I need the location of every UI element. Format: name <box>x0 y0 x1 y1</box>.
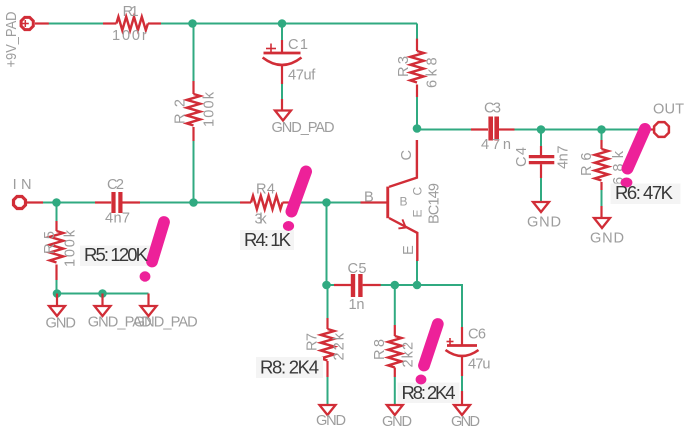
resistor R6 <box>579 140 627 218</box>
svg-text:3k: 3k <box>255 212 268 228</box>
svg-text:GND: GND <box>382 414 412 429</box>
svg-text:GND_PAD: GND_PAD <box>134 315 198 331</box>
wire R1 to R3 corner top rail <box>160 23 417 25</box>
annotation highlight R8 <box>398 324 460 403</box>
svg-text:100r: 100r <box>112 28 147 44</box>
pad IN <box>13 177 43 209</box>
node IN-R5 junction <box>52 198 61 207</box>
svg-text:E: E <box>401 245 417 255</box>
svg-text:E: E <box>411 209 425 217</box>
ground GND under R5 <box>46 294 76 332</box>
capacitor C4 <box>514 146 572 179</box>
svg-text:C5: C5 <box>348 261 367 277</box>
node collector junction <box>413 124 422 133</box>
node R2-C2 junction <box>189 198 198 207</box>
resistor R8 <box>372 325 417 377</box>
wire R3 bottom to collector node <box>416 97 418 130</box>
resistor R7 <box>305 318 348 377</box>
node R6 junction <box>597 125 606 134</box>
svg-text:100k: 100k <box>63 229 79 267</box>
ground GND_PAD under C1 <box>272 111 335 137</box>
svg-text:R5: 120K: R5: 120K <box>84 244 149 265</box>
capacitor C5 <box>334 261 381 313</box>
ground GND under C4 <box>527 202 561 231</box>
wire R3 top vertical <box>416 24 418 40</box>
wire R5 bottom <box>56 280 58 294</box>
wire R4 to base node <box>291 202 361 204</box>
wire C6 bottom green segment <box>461 376 463 391</box>
capacitor C2 <box>95 177 140 227</box>
wire C4 top <box>540 130 542 147</box>
capacitor C6 <box>446 327 491 406</box>
svg-text:R6: 47K: R6: 47K <box>615 182 674 203</box>
svg-text:GND: GND <box>590 231 624 247</box>
wire C2 to R4 <box>129 202 240 204</box>
annotation highlight R5 <box>80 222 164 282</box>
svg-text:C4: C4 <box>514 147 530 167</box>
wire C1 top <box>281 24 283 41</box>
annotation label R8 left <box>256 357 323 379</box>
pad OUT <box>647 102 684 137</box>
svg-text:GND: GND <box>451 414 480 429</box>
wire R2 top vertical <box>193 24 195 82</box>
svg-text:R4: 1K: R4: 1K <box>244 229 292 250</box>
wire R7 top <box>327 285 329 318</box>
wire C3 to OUT rail <box>515 129 649 131</box>
svg-text:OUT: OUT <box>653 102 684 118</box>
svg-text:R4: R4 <box>256 182 275 198</box>
svg-text:BC149: BC149 <box>426 183 442 224</box>
wire emitter rail to C6 <box>461 285 463 327</box>
node gnd row junction 2 <box>98 289 107 298</box>
resistor R1 <box>103 4 161 44</box>
capacitor C1 <box>263 37 317 110</box>
svg-text:GND: GND <box>527 215 561 231</box>
svg-text:+9V_PAD: +9V_PAD <box>4 12 20 68</box>
svg-text:C: C <box>411 187 425 196</box>
capacitor C3 <box>471 101 515 154</box>
wire R7 bottom <box>327 377 329 405</box>
svg-text:R7: R7 <box>305 333 321 351</box>
node base junction <box>322 198 331 207</box>
svg-text:B: B <box>400 195 408 209</box>
svg-text:22k: 22k <box>332 332 348 360</box>
svg-text:R8: 2K4: R8: 2K4 <box>260 357 319 378</box>
node R8 junction <box>391 281 400 290</box>
wire R8 bottom <box>394 377 396 405</box>
svg-text:GND: GND <box>46 316 76 332</box>
svg-text:R1: R1 <box>123 4 139 20</box>
svg-text:C: C <box>399 150 415 161</box>
svg-text:R6: R6 <box>579 153 595 177</box>
annotation highlight R6 <box>611 129 681 204</box>
node gnd row junction 1 <box>53 289 62 298</box>
wire base node down <box>326 203 328 286</box>
node R1-R2 junction <box>188 19 197 28</box>
svg-text:47n: 47n <box>481 137 511 153</box>
ground GND_PAD row symbol 2 <box>88 294 152 331</box>
wire R5 top <box>56 203 58 222</box>
svg-text:47uf: 47uf <box>288 68 316 84</box>
wire collector node to C3 <box>417 129 472 131</box>
ground GND under R8 <box>382 405 412 429</box>
svg-text:6k8: 6k8 <box>425 57 441 88</box>
wire gnd row horizontal <box>57 293 149 295</box>
svg-text:IN: IN <box>13 177 32 193</box>
ground GND under R6 <box>590 218 624 247</box>
wire IN to C2 <box>43 202 96 204</box>
svg-text:100k: 100k <box>202 91 218 127</box>
svg-text:R8: 2K4: R8: 2K4 <box>402 382 456 403</box>
svg-text:47u: 47u <box>468 357 491 373</box>
svg-text:GND_PAD: GND_PAD <box>272 120 335 136</box>
svg-text:2k2: 2k2 <box>401 342 417 368</box>
resistor R4 <box>240 182 291 228</box>
node C1 junction <box>278 19 287 28</box>
svg-text:GND: GND <box>316 413 346 429</box>
wire R6 bottom <box>601 190 603 206</box>
node emitter junction <box>413 281 422 290</box>
svg-text:R8: R8 <box>372 339 388 360</box>
svg-text:B: B <box>364 190 374 206</box>
wire R8 top <box>394 285 396 325</box>
svg-text:R2: R2 <box>173 99 189 124</box>
resistor R5 <box>42 221 79 280</box>
svg-text:1n: 1n <box>349 297 365 313</box>
wire C1 bottom to gndpad <box>281 84 283 99</box>
annotation highlight R4 <box>240 172 306 251</box>
ground GND under R7 <box>316 405 346 429</box>
svg-text:C2: C2 <box>107 177 124 193</box>
transistor Q1 BC149 <box>361 140 443 261</box>
svg-text:C3: C3 <box>484 101 501 117</box>
resistor R3 <box>396 39 441 97</box>
svg-text:C6: C6 <box>468 327 486 343</box>
wire emitter vertical green <box>416 260 418 285</box>
svg-text:4n7: 4n7 <box>105 211 130 227</box>
wire C4 bottom <box>540 178 542 202</box>
svg-text:C1: C1 <box>288 37 308 53</box>
pad +9V_PAD <box>4 12 49 68</box>
resistor R2 <box>173 81 218 141</box>
svg-text:4n7: 4n7 <box>556 146 572 170</box>
wire R6 top <box>601 130 603 141</box>
wire +9V to R1 <box>49 23 104 25</box>
wire C5 to emitter rail <box>380 284 463 286</box>
ground GND under C6 <box>451 405 480 429</box>
node C4 junction <box>537 125 546 134</box>
svg-text:R3: R3 <box>396 56 412 77</box>
node C5-R7 junction <box>322 281 331 290</box>
ground GND_PAD row symbol 3 <box>134 294 198 331</box>
wire R2 bottom vertical <box>193 141 195 203</box>
wire node to C5 <box>327 284 336 286</box>
